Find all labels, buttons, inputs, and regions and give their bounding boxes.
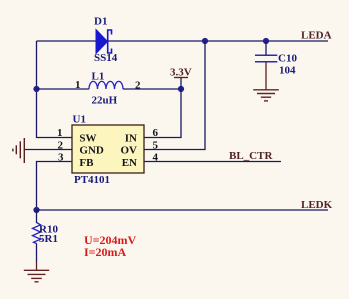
wire: bottom rail to LEDK [37,209,329,211]
svg-text:1: 1 [75,79,81,91]
IC U1 body [72,125,144,173]
svg-text:6: 6 [153,127,159,139]
svg-text:5: 5 [153,139,159,151]
svg-text:IN: IN [125,132,137,144]
svg-text:SW: SW [79,132,96,144]
svg-text:L1: L1 [92,71,105,83]
junction node: FB / R10 / LEDK [33,207,39,213]
ground: below C10 [253,90,279,101]
svg-text:D1: D1 [94,16,107,28]
power port 3.3V stem [180,78,182,90]
ground: below R10 [24,270,49,282]
power port 3.3V bar [174,77,188,79]
svg-text:U1: U1 [73,114,86,126]
wire: left rail down to pin 1 SW [37,41,73,138]
svg-text:C10: C10 [278,53,297,65]
wire: riser from top rail to pin 5 OV [144,41,205,150]
diode D1 triangle [96,30,108,54]
junction node: top rail / OV riser [202,38,208,44]
svg-text:EN: EN [122,157,137,169]
wire: pin 4 EN to BL_CTR [144,161,281,163]
wire: inductor pin1 side [37,88,90,90]
diode D1 schottky cathode bar [108,30,112,53]
svg-text:104: 104 [279,65,296,77]
capacitor C10 plates [255,55,277,62]
svg-text:1: 1 [57,127,63,139]
svg-text:FB: FB [79,157,94,169]
svg-text:22uH: 22uH [92,95,118,107]
svg-text:5R1: 5R1 [39,233,58,245]
svg-text:GND: GND [79,145,104,157]
ground stem below R10 [36,262,38,270]
wire: inductor pin2 to 3.3V node [123,88,181,90]
svg-text:I=20mA: I=20mA [84,245,127,259]
wire: pin 2 GND to earth ground [24,149,72,151]
wire: riser from 3.3V node to pin 6 IN [144,89,181,138]
wire: pin 3 FB down to feedback rail [37,162,73,211]
svg-text:SS14: SS14 [94,52,118,64]
svg-text:LEDA: LEDA [301,30,332,42]
wire: C10 upper lead [265,41,267,55]
resistor R10 zigzag [33,223,41,244]
junction node: top rail / C10 [263,38,269,44]
wire: R10 top lead [36,210,38,223]
svg-text:BL_CTR: BL_CTR [229,150,273,162]
inductor L1 coil [89,81,123,89]
wire: top rail (diode anode/cathode to LEDA) [37,40,329,42]
svg-text:OV: OV [121,145,138,157]
svg-text:PT4101: PT4101 [74,174,110,186]
ground: earth at pin 2 [13,138,24,163]
wire: R10 bottom lead [36,244,38,263]
junction node: left rail / inductor [33,86,39,92]
svg-text:2: 2 [135,80,141,92]
svg-text:LEDK: LEDK [301,199,333,211]
svg-text:3.3V: 3.3V [170,67,192,79]
wire: C10 lower lead to ground [265,62,267,90]
junction node: 3.3V / IN riser [178,86,184,92]
